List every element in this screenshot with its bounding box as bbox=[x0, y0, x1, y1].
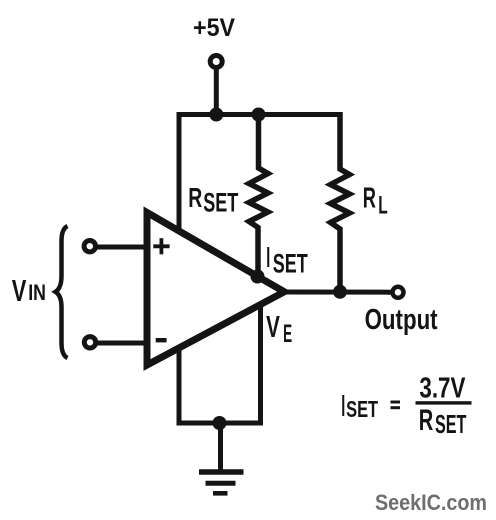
node RSET rail junction bbox=[252, 108, 266, 122]
node +5V rail junction bbox=[209, 108, 223, 122]
wire ground stem bbox=[218, 421, 223, 470]
svg-text:V: V bbox=[266, 310, 280, 344]
terminal input - bbox=[84, 337, 95, 348]
svg-text:L: L bbox=[378, 193, 388, 220]
svg-text:R: R bbox=[363, 183, 376, 215]
svg-text:SET: SET bbox=[346, 396, 378, 422]
svg-text:+5V: +5V bbox=[193, 14, 235, 42]
op-amp U1 bbox=[147, 213, 284, 366]
node RSET edge junction bbox=[251, 270, 265, 284]
terminal output bbox=[393, 287, 404, 298]
wire left feedback vertical bbox=[177, 112, 182, 426]
svg-text:IN: IN bbox=[28, 280, 46, 305]
resistor RSET bbox=[249, 112, 268, 277]
svg-text:R: R bbox=[188, 182, 202, 213]
svg-text:V: V bbox=[12, 274, 27, 308]
op-amp minus input mark bbox=[156, 338, 167, 342]
wire input - bbox=[97, 341, 147, 346]
terminal +5V bbox=[210, 56, 222, 68]
op-amp plus input mark bbox=[153, 238, 169, 254]
svg-text:3.7V: 3.7V bbox=[419, 373, 465, 405]
resistor RL bbox=[331, 112, 350, 292]
node ground rail junction bbox=[213, 416, 227, 430]
wire bottom rail bbox=[177, 421, 264, 426]
VIN brace bbox=[56, 226, 68, 358]
wire VE drop bbox=[258, 305, 263, 426]
svg-text:SET: SET bbox=[435, 411, 467, 439]
wire output bbox=[286, 290, 392, 295]
svg-text:I: I bbox=[266, 242, 270, 274]
wire +5V drop bbox=[214, 68, 219, 117]
wire top rail bbox=[177, 112, 341, 117]
svg-text:R: R bbox=[419, 404, 434, 437]
svg-text:SeekIC.com: SeekIC.com bbox=[375, 490, 487, 515]
svg-text:Output: Output bbox=[365, 304, 438, 336]
svg-text:SET: SET bbox=[273, 249, 308, 279]
svg-text:SET: SET bbox=[203, 187, 238, 217]
svg-text:E: E bbox=[283, 321, 292, 348]
svg-text:I: I bbox=[341, 389, 345, 423]
node RL output junction bbox=[333, 285, 347, 299]
ground bbox=[199, 472, 244, 493]
terminal input + bbox=[84, 241, 95, 252]
wire input + bbox=[96, 245, 146, 250]
